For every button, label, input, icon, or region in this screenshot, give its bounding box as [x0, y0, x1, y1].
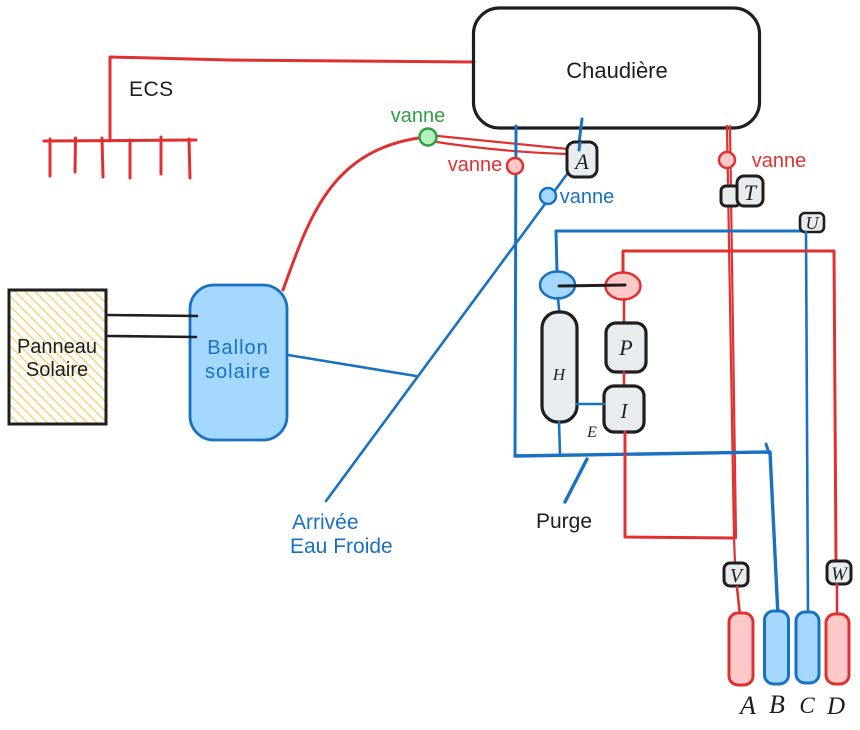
ECS manifold tick 1	[49, 139, 52, 176]
svg-text:Arrivée: Arrivée	[292, 511, 359, 534]
wire: blue drop from U down to capsule C	[806, 232, 808, 618]
wire: corner overshoot stub	[766, 444, 769, 453]
wire: red W to capsule D	[836, 584, 839, 620]
valve red vanne (on blue riser)	[507, 158, 523, 174]
svg-text:C: C	[799, 693, 815, 718]
link between pumps	[559, 285, 625, 286]
capsule A (red)	[729, 613, 753, 685]
wire: red from I bottom to V riser	[625, 432, 734, 538]
wire: doubled red run from green valve to mixer A (stroke 1)	[428, 135, 568, 149]
svg-text:Purge: Purge	[536, 510, 592, 533]
wire: doubled red run from green valve to mixer A (stroke 2)	[430, 141, 567, 154]
wire: blue upper horizontal run to U	[556, 231, 806, 272]
svg-text:A: A	[738, 691, 756, 720]
wire: purge pointer	[565, 459, 587, 502]
svg-text:P: P	[618, 335, 632, 360]
wire: blue H to I	[577, 403, 604, 406]
sensor T main block	[737, 176, 763, 206]
svg-text:H: H	[552, 365, 567, 384]
svg-text:W: W	[831, 564, 849, 585]
wire: short blue stub boiler to mixer A	[579, 119, 582, 143]
solar tank Ballon solaire	[190, 285, 287, 440]
wire: red hot loop from solar tank up to green valve	[283, 137, 426, 290]
unit P box	[606, 323, 646, 372]
svg-text:Eau Froide: Eau Froide	[290, 535, 393, 558]
ECS manifold tick 4	[129, 140, 132, 178]
mixer box A	[567, 142, 597, 177]
svg-text:A: A	[573, 149, 589, 174]
svg-text:vanne: vanne	[752, 150, 807, 172]
wire: red V to capsule A	[737, 587, 740, 616]
wire: blue diagonal cold feed from mixer A down to Arrivée Eau Froide	[326, 166, 573, 501]
boiler Chaudière	[474, 8, 760, 128]
ECS manifold header	[44, 140, 196, 141]
capsule B (blue)	[765, 611, 789, 684]
svg-text:B: B	[769, 690, 785, 719]
svg-text:vanne: vanne	[448, 154, 503, 176]
pump blue	[540, 272, 575, 299]
sensor U box	[800, 213, 824, 232]
wire: blue H bottom to bottom manifold	[559, 422, 560, 454]
sensor T small block	[721, 186, 740, 206]
link panel to tank (upper)	[106, 315, 197, 316]
svg-text:U: U	[806, 213, 820, 233]
unit I box	[604, 386, 644, 432]
svg-text:ECS: ECS	[129, 78, 174, 101]
link panel to tank (lower)	[107, 336, 196, 337]
svg-text:Panneau: Panneau	[17, 336, 97, 358]
exchanger H capsule	[542, 312, 577, 422]
wire: red upper horizontal run to W (from red pump)	[623, 251, 836, 562]
valve box W	[827, 561, 851, 584]
valve box V	[724, 563, 748, 586]
wire: blue branch tank to cold feed diagonal	[288, 355, 416, 376]
capsule D (red)	[826, 614, 849, 684]
svg-text:vanne: vanne	[391, 105, 446, 127]
svg-text:solaire: solaire	[205, 361, 271, 383]
svg-text:vanne: vanne	[560, 186, 615, 208]
svg-text:T: T	[744, 180, 758, 205]
svg-text:Chaudière: Chaudière	[566, 58, 668, 83]
solar panel Panneau Solaire	[9, 290, 106, 424]
wire: red ECS supply riser and run to boiler	[110, 57, 474, 141]
ECS manifold tick 3	[102, 138, 103, 177]
wire: blue pump to H	[558, 298, 560, 320]
valve green vanne	[420, 129, 437, 146]
svg-text:Ballon: Ballon	[207, 337, 269, 359]
wire: blue stub tip entering mixer A	[579, 143, 580, 150]
capsule C (blue)	[796, 612, 819, 683]
ECS manifold tick 5	[160, 137, 163, 174]
wire: blue bottom manifold to capsule B	[515, 452, 778, 616]
pump red	[606, 273, 641, 300]
ECS manifold tick 6	[189, 139, 190, 178]
wire: red pump to P	[623, 299, 626, 323]
svg-text:D: D	[826, 693, 845, 720]
wire: blue cold line from boiler down left side	[515, 126, 516, 456]
svg-text:Solaire: Solaire	[26, 359, 88, 381]
wire: red P to I	[623, 372, 626, 386]
wire: red riser from boiler right port down to valve V (doubled)	[727, 126, 735, 563]
valve red vanne (right)	[719, 152, 735, 168]
ECS manifold tick 2	[74, 138, 78, 172]
svg-text:I: I	[620, 399, 629, 423]
valve blue vanne	[540, 188, 556, 204]
svg-text:E: E	[586, 424, 597, 441]
